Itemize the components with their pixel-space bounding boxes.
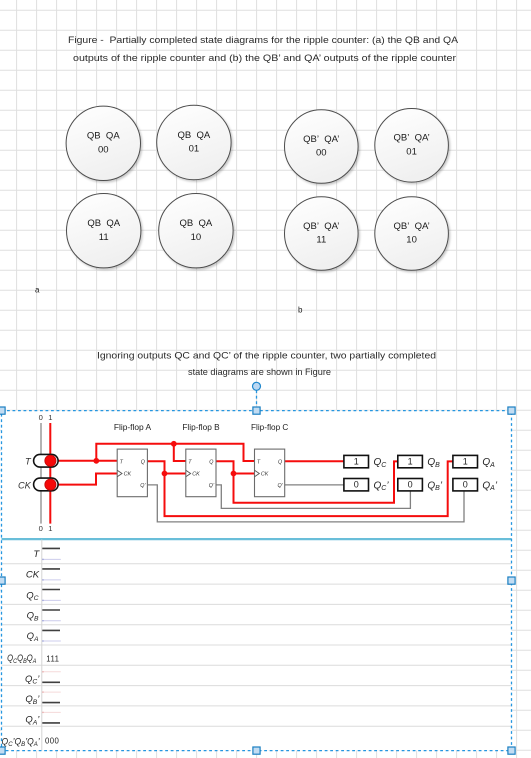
- selection marquee: [2, 411, 512, 751]
- wire FF-B Q to FF-C CK: [216, 461, 255, 473]
- indicator QB value 1: [398, 455, 423, 467]
- svg-text:0: 0: [408, 480, 413, 490]
- wire FF-C Q' to QC' indicator: [285, 484, 344, 486]
- svg-text:QB’ QA’: QB’ QA’: [393, 221, 429, 232]
- svg-text:a: a: [35, 286, 40, 295]
- timing table label column separator: [41, 540, 43, 751]
- junction dot on T rail: [171, 441, 177, 447]
- waveform QC high segment: [42, 589, 60, 591]
- waveform QC low guide: [42, 599, 61, 601]
- toggle switch T: [34, 454, 59, 467]
- svg-text:01: 01: [406, 147, 417, 158]
- svg-text:1: 1: [354, 456, 359, 466]
- svg-text:Flip-flop C: Flip-flop C: [251, 423, 289, 432]
- flip-flop C: [251, 423, 289, 497]
- timing table top border: [2, 538, 512, 540]
- waveform QB low guide: [42, 620, 61, 622]
- svg-text:CK: CK: [26, 570, 40, 581]
- row label QC'QB'QA': [2, 736, 41, 748]
- svg-text:1: 1: [48, 524, 52, 533]
- svg-text:01: 01: [189, 144, 200, 155]
- wire FF-C Q to QC indicator: [285, 460, 344, 462]
- junction dot at T wire: [93, 458, 99, 464]
- svg-text:0: 0: [354, 480, 359, 490]
- svg-text:11: 11: [99, 232, 109, 243]
- svg-text:000: 000: [45, 737, 59, 746]
- svg-text:1: 1: [408, 456, 413, 466]
- wire FF-B Q' to QB' indicator: [216, 485, 410, 509]
- svg-text:Flip-flop B: Flip-flop B: [182, 423, 219, 432]
- svg-text:111: 111: [46, 654, 59, 663]
- svg-text:Q’: Q’: [140, 483, 146, 489]
- svg-text:QB’ QA’: QB’ QA’: [393, 133, 429, 144]
- white canvas of selected group: [2, 411, 512, 751]
- waveform QA' low segment: [42, 722, 60, 724]
- svg-text:Q’: Q’: [209, 483, 215, 489]
- svg-text:outputs of the ripple counter: outputs of the ripple counter and (b) th…: [73, 52, 456, 63]
- rotation handle connector: [256, 390, 258, 407]
- wire rail drop to FF-B T: [174, 444, 186, 461]
- svg-text:QA’: QA’: [482, 480, 497, 492]
- svg-text:1: 1: [48, 413, 52, 422]
- svg-text:10: 10: [406, 235, 417, 246]
- waveform QA' high guide: [42, 711, 61, 713]
- guide line end ticks: [42, 558, 43, 560]
- waveform CK high segment: [42, 568, 60, 570]
- svg-text:11: 11: [316, 235, 326, 246]
- svg-text:QB’ QA’: QB’ QA’: [303, 134, 339, 145]
- state circle QBQA=00: [66, 106, 140, 180]
- junction dot FF-A Q branch: [162, 471, 168, 477]
- waveform T high segment: [42, 547, 60, 549]
- junction dot FF-B Q branch: [231, 471, 237, 477]
- svg-text:0: 0: [39, 524, 43, 533]
- svg-text:QB QA: QB QA: [180, 218, 213, 229]
- state circle QB'QA'=01: [375, 109, 449, 183]
- svg-text:Flip-flop A: Flip-flop A: [114, 423, 152, 432]
- svg-text:Q’: Q’: [277, 483, 283, 489]
- svg-text:QB QA: QB QA: [87, 131, 120, 142]
- svg-text:CK: CK: [261, 472, 269, 478]
- state circle QB'QA'=00: [285, 110, 359, 184]
- svg-text:CK: CK: [124, 472, 132, 478]
- svg-text:b: b: [298, 306, 303, 315]
- net rail 1 (red): [49, 423, 51, 524]
- svg-text:CK: CK: [192, 472, 200, 478]
- row label QCQBQA: [7, 652, 36, 665]
- svg-text:state diagrams are shown in Fi: state diagrams are shown in Figure: [188, 366, 331, 377]
- wire FF-B Q to QB indicator: [234, 461, 398, 502]
- wire FF-A Q' to QA' indicator: [147, 485, 464, 522]
- svg-text:QB QA: QB QA: [178, 130, 211, 141]
- waveform QB high segment: [42, 609, 60, 611]
- svg-text:00: 00: [316, 148, 327, 159]
- svg-text:Figure - Partially completed: Figure - Partially completed state diagr…: [68, 34, 459, 45]
- svg-text:QB’: QB’: [427, 480, 442, 492]
- wire T to FF-A T input: [56, 460, 117, 462]
- waveform QB' high guide: [42, 691, 61, 693]
- indicator QC' value 0: [344, 479, 369, 491]
- waveform QA low guide: [42, 640, 61, 642]
- flip-flop A: [114, 423, 152, 497]
- timing table row separators: [2, 564, 512, 726]
- state circle QBQA=11: [67, 194, 141, 268]
- waveform QC' high guide: [42, 671, 61, 673]
- wire CK to FF-A CK input: [56, 474, 117, 485]
- wire T distribution rail: [96, 444, 254, 461]
- wire FF-A Q to QA indicator: [165, 461, 453, 516]
- waveform QC' low segment: [42, 681, 60, 683]
- toggle switch CK: [34, 478, 59, 491]
- svg-text:Ignoring outputs QC and QC’ of: Ignoring outputs QC and QC’ of the rippl…: [97, 350, 436, 361]
- waveform QB' low segment: [42, 702, 60, 704]
- svg-text:0: 0: [39, 413, 43, 422]
- state circle QB'QA'=11: [285, 197, 359, 271]
- svg-text:0: 0: [463, 480, 468, 490]
- indicator QB' value 0: [398, 479, 423, 491]
- flip-flop B: [182, 423, 219, 497]
- indicator QC value 1: [344, 455, 369, 467]
- rotation handle: [253, 382, 261, 390]
- state circle QBQA=01: [157, 105, 231, 179]
- svg-text:QCQBQA: QCQBQA: [7, 652, 36, 665]
- waveform T low guide: [42, 558, 61, 560]
- state circle QB'QA'=10: [375, 197, 449, 271]
- svg-text:00: 00: [98, 145, 109, 156]
- svg-text:QB QA: QB QA: [87, 218, 120, 229]
- waveform CK low guide: [42, 579, 61, 581]
- svg-text:CK: CK: [18, 480, 32, 490]
- svg-text:10: 10: [191, 232, 202, 243]
- svg-text:QB’ QA’: QB’ QA’: [303, 221, 339, 232]
- indicator QA value 1: [453, 455, 478, 467]
- net rail 0 (gray): [40, 423, 42, 524]
- state circle QBQA=10: [159, 194, 233, 268]
- indicator QA' value 0: [453, 479, 478, 491]
- svg-text:1: 1: [463, 456, 468, 466]
- wire FF-A Q to FF-B CK: [147, 461, 185, 473]
- selection handles: [0, 407, 515, 754]
- waveform QA high segment: [42, 629, 60, 631]
